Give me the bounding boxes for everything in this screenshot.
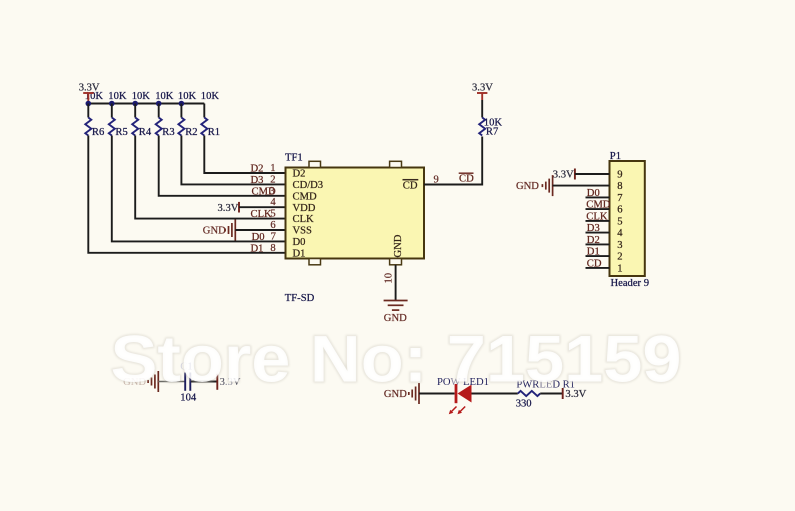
connector P1: Header 9 body xyxy=(610,161,645,276)
watermark Store No: 715159 xyxy=(111,322,682,396)
junction node at R3 top xyxy=(156,101,162,107)
svg-text:R2: R2 xyxy=(185,127,197,138)
svg-text:R6: R6 xyxy=(92,127,104,138)
svg-text:4: 4 xyxy=(617,228,623,239)
svg-text:3.3V: 3.3V xyxy=(553,170,574,181)
wire: P1 pin 6 stub (net CMD) xyxy=(586,208,610,210)
junction node at R4 top xyxy=(132,101,138,107)
svg-text:CD: CD xyxy=(403,180,418,191)
svg-text:D1: D1 xyxy=(251,243,264,254)
svg-text:R5: R5 xyxy=(115,127,127,138)
svg-text:1: 1 xyxy=(270,163,275,174)
junction node at R2 top xyxy=(179,101,185,107)
wire: TF1 pin 9 to R7 (net CD) xyxy=(424,137,482,185)
wire: GND to P1 pin 8 xyxy=(553,185,610,187)
wire: P1 pin 7 stub (net D0) xyxy=(586,196,610,198)
svg-text:D1: D1 xyxy=(293,248,306,259)
svg-text:8: 8 xyxy=(617,181,622,192)
junction node at R6 top xyxy=(86,101,92,107)
wire: R1 to TF1 pin 1 (net D2) xyxy=(204,136,285,174)
svg-text:10K: 10K xyxy=(108,91,127,102)
net label CD (active low) xyxy=(459,173,474,184)
svg-text:1: 1 xyxy=(617,264,622,275)
svg-text:TF1: TF1 xyxy=(285,153,303,164)
svg-text:D1: D1 xyxy=(587,247,600,258)
svg-text:Store No: 715159: Store No: 715159 xyxy=(111,322,682,396)
power ground symbol at TF1 pin 6 xyxy=(203,220,236,241)
resistor R1 xyxy=(201,104,220,138)
svg-text:D0: D0 xyxy=(587,188,600,199)
svg-text:CD: CD xyxy=(587,258,602,269)
svg-text:R1: R1 xyxy=(208,127,220,138)
resistor R3 xyxy=(156,104,175,138)
wire: GND to C1 left plate xyxy=(158,381,184,383)
LED D1: POW LED1 xyxy=(437,377,489,414)
power symbol 3.3V at PWRLED R1 xyxy=(563,388,587,400)
power ground symbol at LED1 xyxy=(384,383,419,404)
svg-text:CLK: CLK xyxy=(586,211,608,222)
svg-text:10K: 10K xyxy=(201,91,220,102)
svg-text:10K: 10K xyxy=(178,91,197,102)
wire: 3.3V to R7 top xyxy=(481,100,483,118)
svg-text:GND: GND xyxy=(393,234,404,257)
svg-text:D3: D3 xyxy=(251,175,264,186)
wire: R6 to TF1 pin 8 (net D1) xyxy=(88,136,285,253)
svg-text:2: 2 xyxy=(270,174,275,185)
power ground symbol at capacitor C1 (faded by watermark) xyxy=(123,371,158,392)
wire: 3.3V to P1 pin 9 xyxy=(575,173,610,175)
svg-text:6: 6 xyxy=(617,205,622,216)
svg-text:P1: P1 xyxy=(610,151,621,162)
svg-text:CLK: CLK xyxy=(293,214,315,225)
svg-text:CLK: CLK xyxy=(251,209,273,220)
power symbol 3.3V at P1 pin 9 xyxy=(553,169,575,181)
wire: P1 pin 1 stub (net CD) xyxy=(586,267,610,269)
svg-text:3.3V: 3.3V xyxy=(472,82,493,93)
svg-text:CMD: CMD xyxy=(293,191,317,202)
svg-text:TF-SD: TF-SD xyxy=(285,293,315,304)
resistor R6 xyxy=(85,104,104,138)
svg-text:3: 3 xyxy=(270,186,275,197)
wire: R1 to 3.3V xyxy=(540,393,563,395)
wire: C1 right plate to 3.3V xyxy=(191,381,217,383)
svg-text:D0: D0 xyxy=(252,232,265,243)
svg-text:D2: D2 xyxy=(587,235,600,246)
svg-text:5: 5 xyxy=(270,209,275,220)
svg-text:CD: CD xyxy=(459,174,474,185)
svg-text:10: 10 xyxy=(384,273,395,284)
wire: 3.3V to TF1 pin 4 (VDD) xyxy=(239,206,286,208)
pin name CD (active low, pin 9) xyxy=(403,180,419,192)
wire: 3.3V bus across pull-up resistors xyxy=(88,103,204,105)
wire: R2 to TF1 pin 2 (net D3) xyxy=(181,136,285,185)
resistor R5 xyxy=(109,104,128,138)
svg-text:5: 5 xyxy=(617,217,622,228)
svg-text:VSS: VSS xyxy=(293,226,313,237)
svg-text:7: 7 xyxy=(617,193,622,204)
svg-text:3: 3 xyxy=(617,240,622,251)
svg-text:CMD: CMD xyxy=(586,200,610,211)
power ground symbol at P1 pin 8 xyxy=(516,175,553,196)
svg-text:CD/D3: CD/D3 xyxy=(293,180,324,191)
power symbol 3.3V at C1 (partly faded) xyxy=(217,374,241,390)
power symbol 3.3V at TF1 pin 4 xyxy=(218,202,240,214)
wire: GND to TF1 pin 6 (VSS) xyxy=(235,229,285,231)
svg-text:D3: D3 xyxy=(587,223,600,234)
wire: P1 pin 2 stub (net D1) xyxy=(586,255,610,257)
wire: TF1 pin 10 to ground xyxy=(395,265,397,301)
junction node at R5 top xyxy=(109,101,115,107)
svg-text:3.3V: 3.3V xyxy=(218,203,239,214)
svg-text:2: 2 xyxy=(617,252,622,263)
IC U1: TF1 micro-SD socket body xyxy=(286,161,425,264)
power symbol 3.3V (pull-up rail) xyxy=(79,82,100,93)
capacitor C1 xyxy=(180,361,197,403)
svg-text:GND: GND xyxy=(203,226,226,237)
svg-text:D2: D2 xyxy=(251,164,264,175)
svg-text:R3: R3 xyxy=(162,127,174,138)
svg-text:330: 330 xyxy=(516,398,532,409)
power symbol 3.3V above R7 xyxy=(472,82,493,100)
svg-text:D0: D0 xyxy=(293,237,306,248)
svg-text:Header 9: Header 9 xyxy=(611,278,650,289)
svg-text:10K: 10K xyxy=(155,91,174,102)
resistor R4 xyxy=(132,104,152,138)
svg-text:R4: R4 xyxy=(139,127,152,138)
wire: R5 to TF1 pin 7 (net D0) xyxy=(112,136,286,242)
svg-text:9: 9 xyxy=(617,170,622,181)
wire: P1 pin 3 stub (net D2) xyxy=(586,243,610,245)
wire: LED1 anode to R1 (PWRLED) xyxy=(472,393,518,395)
resistor R7 xyxy=(479,117,502,137)
svg-text:8: 8 xyxy=(270,243,275,254)
svg-text:R7: R7 xyxy=(486,127,498,138)
wire: GND to LED1 cathode xyxy=(419,393,455,395)
svg-text:7: 7 xyxy=(271,231,276,242)
svg-text:GND: GND xyxy=(516,181,539,192)
resistor PWRLED R1 xyxy=(516,379,575,409)
wire: R3 to TF1 pin 3 (net CMD) xyxy=(159,136,286,196)
svg-text:VDD: VDD xyxy=(293,203,316,214)
ground (earth) below TF1 xyxy=(384,301,408,325)
wire: P1 pin 4 stub (net D3) xyxy=(586,232,610,234)
svg-text:10K: 10K xyxy=(132,91,151,102)
resistor R2 xyxy=(178,104,197,138)
wire: P1 pin 5 stub (net CLK) xyxy=(586,220,610,222)
svg-text:D2: D2 xyxy=(293,169,306,180)
wire: R4 to TF1 pin 5 (net CLK) xyxy=(135,136,285,219)
power bar 3.3V rail symbol xyxy=(83,93,93,104)
